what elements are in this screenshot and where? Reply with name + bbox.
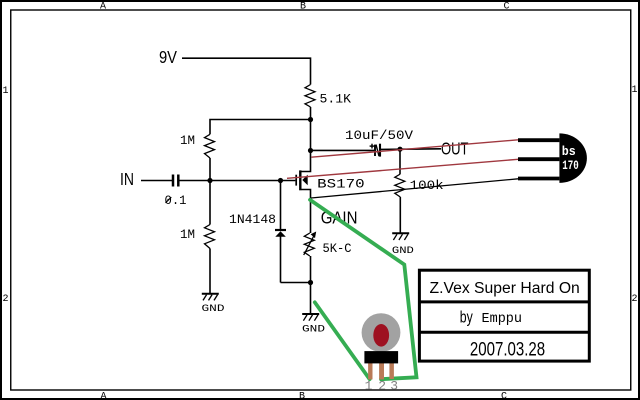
node bottom junction: [308, 280, 313, 285]
svg-text:B: B: [299, 391, 305, 400]
svg-text:10uF/50V: 10uF/50V: [345, 128, 413, 143]
author text: [460, 308, 522, 328]
svg-text:bs: bs: [562, 145, 576, 159]
wire cap to gate: [180, 180, 296, 182]
svg-text:Z.Vex Super Hard On: Z.Vex Super Hard On: [430, 280, 580, 297]
wire diode bottom to source chain: [281, 282, 311, 284]
node output junction: [397, 147, 402, 152]
svg-text:3: 3: [390, 378, 398, 393]
svg-text:1: 1: [631, 85, 637, 96]
svg-text:5K-C: 5K-C: [323, 241, 352, 256]
svg-text:BS170: BS170: [317, 177, 365, 192]
node junction at 5.1K bottom: [308, 117, 313, 122]
ground GND middle: [302, 314, 325, 336]
wire 1M to input node: [209, 158, 211, 181]
svg-text:100k: 100k: [410, 178, 444, 193]
node input junction: [207, 178, 212, 183]
svg-text:GND: GND: [202, 303, 225, 315]
svg-text:2: 2: [378, 378, 386, 393]
svg-text:2: 2: [631, 294, 637, 305]
wire green jumper source to pot lug 2: [310, 200, 417, 379]
svg-text:GND: GND: [302, 324, 325, 336]
potentiometer drawing body: [362, 313, 401, 379]
wire red annotation gate to package pin 2: [287, 159, 518, 178]
wire IN to cap: [141, 180, 172, 182]
ground GND left: [202, 294, 225, 315]
svg-text:OUT: OUT: [441, 139, 469, 159]
svg-text:Emppu: Emppu: [482, 312, 523, 327]
wire drain to output cap: [311, 149, 375, 151]
node diode junction: [278, 178, 283, 183]
svg-text:2: 2: [2, 294, 8, 305]
wire resistor to drain node: [310, 107, 312, 151]
wire green jumper ground to pot lug 1: [315, 302, 370, 379]
potentiometer R4 5K-C variable: [304, 232, 317, 257]
label 0.1: [165, 193, 187, 208]
svg-text:GND: GND: [392, 245, 414, 257]
svg-text:C: C: [503, 2, 509, 13]
resistor R3 100k: [395, 149, 405, 233]
svg-text:B: B: [300, 2, 306, 13]
transistor Q1 BS170 mosfet: [296, 151, 310, 234]
capacitor C1 0.1: [173, 175, 178, 187]
wire junction to ground: [310, 283, 312, 315]
svg-text:by: by: [460, 308, 473, 327]
wire 9V supply: [182, 58, 311, 84]
svg-text:1N4148: 1N4148: [229, 212, 276, 227]
svg-text:IN: IN: [120, 169, 134, 189]
pin numbers 1 2 3: [365, 378, 399, 393]
wire junction to 1M top: [210, 120, 311, 135]
svg-text:1M: 1M: [180, 133, 195, 148]
ground GND right: [392, 233, 414, 257]
resistor R1 1M (upper): [205, 134, 215, 158]
transistor package BS170 TO-92: [518, 133, 587, 183]
svg-text:170: 170: [562, 159, 579, 173]
svg-text:1: 1: [365, 378, 373, 393]
wire red annotation drain to package pin 1: [311, 140, 518, 157]
svg-text:5.1K: 5.1K: [320, 91, 352, 106]
svg-text:9V: 9V: [159, 47, 177, 67]
wire 5K-C to bottom junction: [310, 256, 312, 283]
wire input node to 1M lower: [209, 181, 211, 225]
svg-text:2007.03.28: 2007.03.28: [470, 338, 545, 360]
node drain junction: [308, 148, 313, 153]
wire 1M lower to ground: [209, 249, 211, 294]
svg-text:1: 1: [2, 86, 8, 97]
wire black annotation source to package pin 3: [311, 179, 518, 198]
svg-text:C: C: [501, 391, 507, 400]
svg-text:A: A: [100, 2, 106, 13]
title block box: [419, 270, 589, 361]
wire cap to out: [381, 148, 441, 151]
resistor R 5.1K: [305, 85, 315, 108]
resistor R2 1M (lower): [205, 225, 215, 249]
diode D1 1N4148: [275, 181, 286, 283]
capacitor C2 10uF/50V polarized: [370, 144, 380, 157]
svg-text:1M: 1M: [180, 227, 195, 242]
svg-text:A: A: [100, 391, 106, 400]
